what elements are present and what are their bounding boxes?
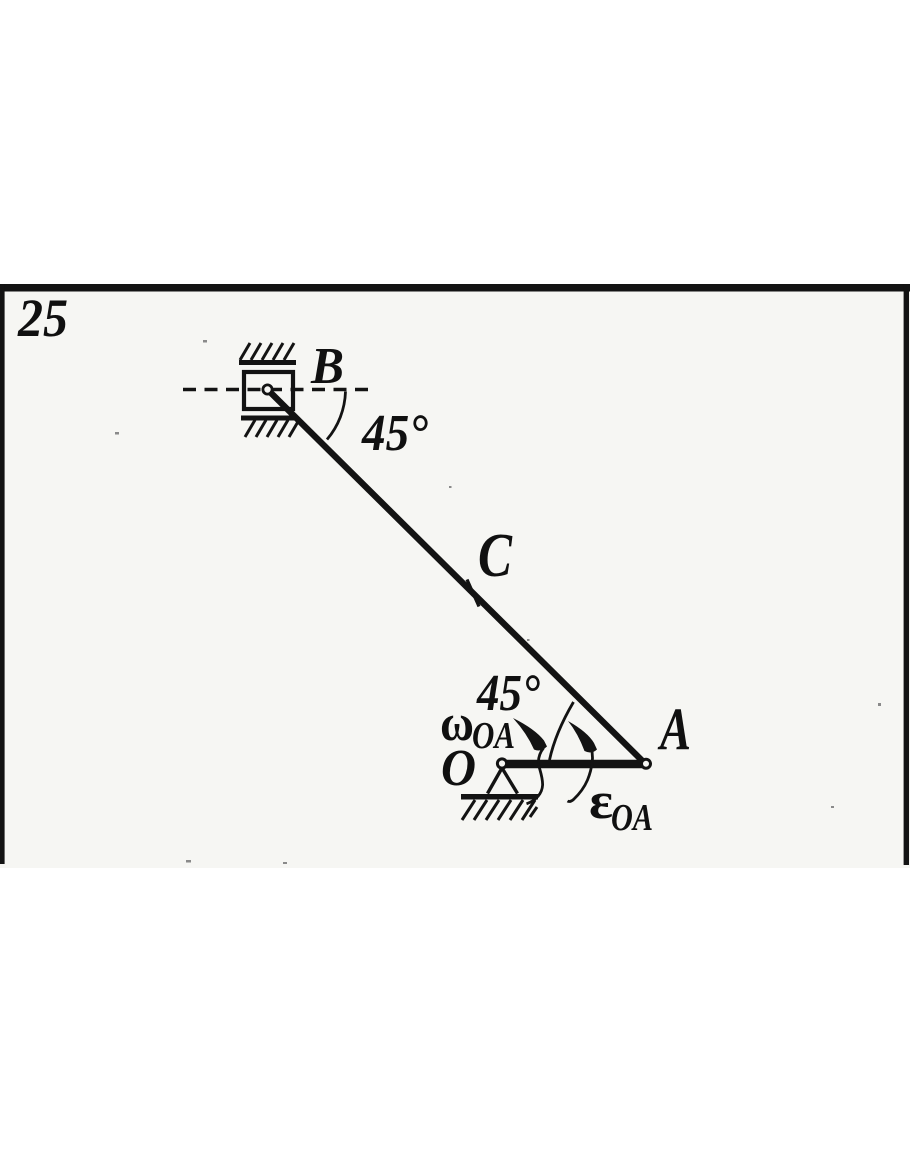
slider guide top hatching: [240, 343, 294, 360]
svg-text:B: B: [310, 338, 344, 395]
dashed guide line through B: [183, 388, 373, 391]
omega_OA curved arrow arc: [527, 748, 544, 804]
pivot support base line: [461, 794, 538, 800]
frame top border: [0, 284, 910, 292]
pivot support legs at O: [488, 768, 518, 794]
svg-text:45°: 45°: [361, 405, 428, 462]
frame right border: [904, 284, 909, 865]
svg-text:C: C: [478, 522, 513, 590]
slider guide top rail: [239, 360, 296, 365]
slider block B: [244, 372, 293, 409]
45 degree arc at B: [327, 392, 346, 440]
pivot support hatching: [462, 800, 537, 820]
faint scan specks: [115, 340, 881, 864]
svg-text:OA: OA: [611, 797, 653, 839]
pin circle at A: [642, 759, 651, 768]
epsilon_OA arrowhead: [568, 721, 597, 752]
slider guide bottom rail: [241, 416, 296, 421]
epsilon_OA curved arrow arc: [568, 751, 593, 802]
svg-text:ε: ε: [589, 773, 613, 830]
pin circle at B: [263, 385, 272, 394]
rod BA: [268, 390, 646, 764]
slider guide bottom hatching: [245, 420, 299, 437]
svg-text:ω: ω: [440, 695, 474, 752]
svg-text:A: A: [657, 696, 691, 762]
omega_OA arrowhead: [513, 718, 547, 751]
svg-text:25: 25: [17, 288, 68, 348]
svg-text:45°: 45°: [476, 665, 540, 722]
svg-text:OA: OA: [472, 715, 515, 757]
frame left border: [0, 284, 5, 864]
frame interior background: [0, 284, 910, 868]
crank bar OA: [499, 760, 646, 769]
45 degree arc at A: [550, 702, 574, 760]
midpoint tick C: [467, 580, 479, 607]
pin circle at O: [497, 759, 506, 768]
